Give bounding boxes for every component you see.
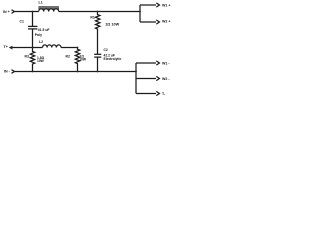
svg-text:T+: T+ bbox=[4, 45, 8, 49]
svg-text:Poly: Poly bbox=[35, 33, 42, 37]
svg-text:W1 +: W1 + bbox=[162, 3, 171, 7]
svg-text:W2 +: W2 + bbox=[162, 20, 171, 24]
svg-text:R3: R3 bbox=[25, 54, 29, 58]
svg-text:C1: C1 bbox=[20, 20, 24, 24]
svg-text:41.5 uF: 41.5 uF bbox=[38, 28, 50, 32]
svg-text:10W: 10W bbox=[79, 58, 87, 62]
svg-text:1Ω 10W: 1Ω 10W bbox=[105, 23, 119, 27]
svg-text:L1: L1 bbox=[39, 1, 43, 5]
svg-text:L2: L2 bbox=[39, 40, 43, 44]
svg-text:R1: R1 bbox=[90, 15, 94, 19]
svg-text:IN -: IN - bbox=[4, 70, 11, 74]
svg-text:IN +: IN + bbox=[3, 10, 10, 14]
svg-text:R2: R2 bbox=[66, 55, 70, 59]
svg-text:W1 -: W1 - bbox=[162, 62, 170, 66]
svg-text:C2: C2 bbox=[104, 48, 108, 52]
svg-text:Electrolytic: Electrolytic bbox=[104, 57, 122, 61]
svg-text:W2 -: W2 - bbox=[162, 77, 170, 81]
svg-text:10W: 10W bbox=[37, 59, 45, 63]
